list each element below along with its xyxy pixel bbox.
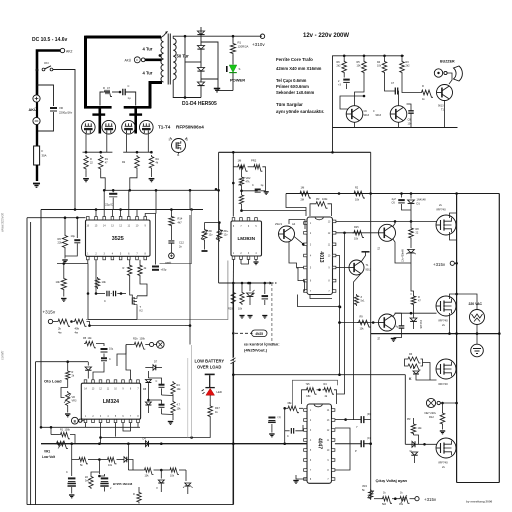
resistor VR1 pot on rail [55, 441, 68, 448]
wire thick center drop left pair [99, 107, 102, 133]
resistor R32 100k top left of LM324 [84, 341, 96, 348]
wire net to lm324 pins [143, 368, 148, 372]
svg-text:120R/2A: 120R/2A [238, 45, 249, 49]
terminal AKU supply [169, 253, 175, 259]
wire frame bottom [27, 504, 233, 506]
resistor R48 10k bottom pot [399, 496, 410, 503]
svg-text:Ferrite Core Trafo: Ferrite Core Trafo [276, 57, 313, 62]
wire option dashed border [271, 283, 273, 346]
wire source bar right pair [123, 151, 151, 153]
resistor R8 10k below 3525 [95, 277, 99, 289]
svg-text:+310v: +310v [252, 42, 265, 47]
wire 4047 rc loop [302, 390, 306, 404]
wire lamp bottom to earth [476, 325, 478, 345]
wire soft start loop [96, 293, 105, 295]
ground oto load [67, 407, 69, 413]
capacitor C18 [159, 404, 165, 406]
resistor R16 2k2 [401, 56, 403, 60]
wire 3525 pin13 up [111, 210, 113, 217]
zener ZD5 BY255 stage4 [414, 444, 416, 450]
svg-text:AKÜ: AKÜ [125, 59, 132, 63]
svg-text:10n: 10n [408, 123, 413, 126]
transistor M4 IRF740 stage4 [436, 438, 456, 458]
wire 4013 left pin loop [303, 281, 306, 291]
svg-text:R: R [103, 86, 105, 90]
svg-text:VR1: VR1 [44, 450, 50, 454]
resistor R40 row2 a [127, 444, 129, 470]
transistor T4 RFP50N06 [140, 120, 154, 134]
svg-text:42mm X40 mm X16mm: 42mm X40 mm X16mm [276, 66, 322, 71]
ground stage2 [394, 328, 402, 337]
svg-text:Primer 6X0.6mm: Primer 6X0.6mm [276, 84, 309, 89]
wire M4 source to corner [449, 455, 451, 483]
svg-text:C: C [156, 380, 158, 383]
svg-text:PR: PR [316, 198, 320, 201]
resistor R44 7k5 above 4047 [305, 388, 317, 395]
svg-text:Sekonder 1x0.6mm: Sekonder 1x0.6mm [276, 90, 314, 95]
wire 3525 pin2 down [95, 260, 97, 294]
svg-text:C6: C6 [392, 201, 396, 205]
resistor R13 2k2 [343, 56, 345, 60]
svg-text:Y: Y [356, 425, 358, 429]
resistor R31 oto load [66, 360, 69, 363]
capacitor C8 below 3525 [113, 291, 115, 297]
wire x233 to LM393 [232, 152, 234, 216]
resistor VR3 trimmer [67, 381, 69, 388]
wire x371 to pot [370, 444, 372, 489]
svg-text:5v1: 5v1 [361, 300, 366, 303]
resistor R26 stage1 gate [410, 221, 412, 226]
wire pwm bus y190 [105, 189, 219, 191]
diode D1 HER505 [200, 27, 202, 46]
svg-text:1N4148: 1N4148 [419, 320, 422, 329]
svg-text:2M: 2M [301, 199, 304, 202]
wire Q7 to 4013 [289, 220, 305, 230]
wire switch to control rail [53, 70, 75, 210]
resistor R39 10k row1 [106, 457, 116, 464]
svg-text:4 Tur: 4 Tur [143, 71, 153, 76]
svg-text:+315v: +315v [424, 497, 437, 502]
ground gate network right [151, 170, 153, 177]
wire buzzer top rail [333, 56, 405, 128]
wire stage2 base rail [340, 322, 379, 324]
wire hv bus corner to 4013 [286, 194, 306, 217]
zener diode ZD1 12v [204, 223, 206, 229]
svg-text:by emreltang 2006: by emreltang 2006 [466, 500, 493, 504]
svg-text:C: C [252, 184, 254, 187]
svg-text:4 Tur: 4 Tur [143, 47, 153, 52]
svg-text:R14: R14 [178, 217, 183, 221]
wire output mid rail y333 [371, 333, 500, 335]
wire bridge right link [201, 42, 218, 91]
wire lm324 top pin leads [93, 366, 104, 380]
transformer core [168, 34, 170, 85]
wire fuse to ground [36, 165, 38, 181]
svg-text:F: F [136, 58, 138, 62]
wire stage3 feed [404, 375, 406, 445]
resistor R1 120R 2W [232, 35, 235, 38]
capacitor C9 10u buzzer [343, 74, 345, 78]
resistor VR2 47k [241, 167, 243, 176]
op-amp U5 4047 box [307, 404, 332, 483]
capacitor C11 100n option [264, 283, 266, 294]
svg-text:PR2: PR2 [251, 159, 257, 163]
svg-text:(4N25/Vout.): (4N25/Vout.) [244, 348, 268, 353]
capacitor C6 10u at 3525 left [76, 218, 78, 238]
svg-text:com/tr: com/tr [1, 350, 5, 360]
svg-text:2k2: 2k2 [406, 65, 411, 68]
wire Q8 collector to gate rail [393, 221, 396, 227]
neon NE 220v [426, 398, 435, 407]
fuse F 30A [34, 146, 40, 165]
svg-text:R12: R12 [429, 415, 434, 419]
transistor Q9 stage2 driver [379, 314, 396, 331]
wire led feed T-bar [205, 373, 215, 375]
svg-text:C8k: C8k [306, 395, 311, 398]
resistor R42 right column [143, 458, 146, 460]
wire zener tops [205, 222, 220, 224]
snubber capacitor C4 1u [123, 89, 125, 96]
wire left frame vertical B [30, 222, 32, 505]
wire low bus y374.7 [233, 374, 405, 376]
svg-text:aynı yönde sarılacaktır.: aynı yönde sarılacaktır. [276, 109, 324, 114]
resistor R38 5k row1 [71, 444, 73, 452]
diode D5 option [249, 283, 251, 291]
resistor R10 below 3525 pin6 [139, 260, 141, 264]
resistor R17 1k to Q3 [402, 74, 420, 93]
svg-text:R2b: R2b [133, 338, 138, 341]
ground option block [239, 315, 244, 317]
resistor R33 chain to X [133, 342, 145, 349]
terminal AK2 [60, 48, 64, 52]
transistor Q6 9013 buzzer driver [437, 85, 453, 101]
wire y427 rail [41, 426, 140, 428]
svg-text:5v6: 5v6 [85, 480, 90, 483]
wire thick center drop right pair [134, 107, 137, 133]
wire far right rail x499 [498, 194, 500, 483]
resistor R14 10k [363, 56, 365, 60]
wire thick battery positive [37, 51, 60, 96]
svg-text:R: R [422, 85, 424, 88]
svg-text:22µ/C: 22µ/C [105, 203, 114, 207]
svg-text:Tüm Sargılar: Tüm Sargılar [276, 102, 303, 107]
battery AKU [33, 95, 40, 102]
wire Q10 emitter down [354, 274, 362, 420]
resistor R12 40k 4w [73, 319, 87, 326]
op-amp U2 LM393N box [232, 218, 235, 221]
resistor R18 1M [233, 166, 236, 168]
wire 3525 pin14 out B [103, 190, 105, 216]
wire oscillator loop [87, 264, 89, 320]
svg-text:www.320volt: www.320volt [1, 213, 5, 232]
svg-text:2200µ/16v: 2200µ/16v [59, 111, 73, 115]
svg-text:Oto Load: Oto Load [44, 379, 62, 384]
svg-text:+63p: +63p [161, 268, 167, 272]
wire faint sense [191, 345, 193, 438]
svg-text:4µ7: 4µ7 [392, 197, 397, 201]
wire 4013 pin13 gate line stage1 [336, 220, 437, 222]
svg-text:IRF740: IRF740 [437, 208, 447, 212]
capacitor C9 63p below 3525 pin9 [152, 266, 159, 268]
wire mid rail y152 [219, 151, 371, 153]
svg-text:PR: PR [407, 418, 411, 421]
svg-text:ON: ON [44, 61, 49, 65]
svg-text:C: C [66, 471, 68, 474]
svg-text:BY255 1N4148: BY255 1N4148 [113, 482, 133, 486]
resistor R gate T3 [135, 155, 140, 170]
svg-text:10µ: 10µ [109, 348, 114, 351]
svg-text:4k7: 4k7 [178, 221, 183, 225]
wire lamp top [457, 294, 477, 310]
wire Q10 base [336, 267, 349, 269]
zener ZD3 12v 400mW stage1 [410, 240, 412, 249]
capacitor C22 [291, 428, 293, 434]
svg-text:D1-D4 HER505: D1-D4 HER505 [182, 101, 217, 107]
svg-text:4013: 4013 [318, 251, 324, 262]
svg-text:S: S [239, 67, 241, 71]
diode D13 row1 [124, 457, 127, 463]
svg-text:(1): (1) [278, 416, 281, 419]
wire stage4 gate rail [405, 443, 436, 445]
wire M1 source [450, 232, 457, 240]
resistor R14 4k7 supply [170, 210, 172, 216]
svg-text:100k: 100k [65, 429, 71, 432]
wire 3525 pin12 up [120, 210, 122, 217]
svg-text:C: C [128, 84, 130, 88]
diode D9 stage4 [412, 441, 415, 447]
transistor M2 IRF740 stage2 [436, 296, 456, 316]
svg-text:Çıkış Voltaj ayarı: Çıkış Voltaj ayarı [376, 478, 408, 483]
diode D15 on rail [146, 441, 149, 447]
svg-text:IRF740: IRF740 [439, 382, 449, 386]
wire M4 drain [449, 403, 451, 441]
ground rectifier [214, 88, 220, 90]
capacitor C16 [101, 357, 107, 359]
svg-text:K2: K2 [140, 309, 144, 313]
transistor example RFP50N06 pinout [172, 139, 186, 153]
svg-text:C: C [104, 299, 106, 303]
wire M1 drain [450, 194, 457, 219]
svg-text:LM393N: LM393N [237, 236, 255, 241]
resistor R45 above 4047 [323, 388, 335, 395]
wire bridge left link [184, 36, 186, 97]
wire oto load box left [35, 362, 37, 505]
resistor R gate T4 [149, 155, 154, 170]
wire x370.7 long vertical [370, 152, 372, 193]
op-amp U1 3525 PWM controller box [87, 217, 90, 221]
resistor R21 option [241, 283, 243, 291]
resistor R30 neon [442, 403, 444, 412]
svg-text:R: R [123, 266, 125, 270]
svg-text:LOW BATTERY: LOW BATTERY [195, 359, 225, 364]
wire option bus y283 [219, 282, 268, 284]
wire zener links [91, 472, 99, 475]
wire 4047 right outputs [335, 419, 346, 421]
wire rail corner x41 down [40, 210, 42, 428]
svg-text:12v 400mW: 12v 400mW [402, 249, 405, 262]
capacitor C21 100n [268, 417, 275, 419]
svg-text:9013: 9013 [438, 105, 444, 108]
svg-text:4N25: 4N25 [255, 332, 263, 336]
wire x219 vertical [218, 152, 220, 283]
svg-text:22k: 22k [58, 241, 63, 245]
wire lm324 feedback top [117, 345, 126, 367]
svg-text:OVER LOAD: OVER LOAD [197, 365, 221, 370]
wire Q8 emitter down [393, 239, 412, 264]
resistor R9 below 3525 pin5 [129, 260, 131, 264]
op-amp U3 4013 box [307, 217, 333, 295]
ground comparator net [172, 415, 174, 421]
wire 68k to rail [284, 408, 286, 443]
svg-text:D1: D1 [417, 202, 421, 206]
svg-text:30A: 30A [42, 154, 47, 158]
svg-text:10k: 10k [56, 280, 61, 284]
wire right rail x456 [456, 194, 458, 483]
wire x233 long vertical [232, 283, 234, 505]
capacitor C19 10u bottom [71, 460, 73, 477]
node 4N25 badge [252, 330, 268, 337]
transistor M3 IRF740 stage3 [436, 359, 456, 379]
capacitor C24 out C [361, 440, 364, 447]
wire x344.5 vertical to 4047 rc [344, 233, 346, 389]
wire battery cells [36, 102, 38, 117]
ground LM393 [255, 259, 257, 261]
wire 3525 pin15 up [95, 210, 97, 217]
resistor R46 68k [287, 406, 299, 413]
capacitor C7 buzzer coupling [355, 74, 365, 106]
diode D7 1N4148 stage2 [410, 318, 417, 321]
diode D3 HER505 [197, 68, 204, 72]
svg-text:D: D [155, 487, 158, 489]
wire LM393 pins to nets [232, 259, 234, 283]
svg-text:VR4: VR4 [362, 485, 367, 488]
svg-text:C12: C12 [179, 241, 184, 245]
svg-text:5k6: 5k6 [382, 503, 387, 506]
svg-text:BUZZER: BUZZER [440, 60, 455, 64]
wire M2 drain to mid rail [450, 294, 457, 299]
svg-text:R47: R47 [215, 406, 220, 410]
wire 4047 rc outer loop [292, 380, 337, 408]
zener diode ZD2 [218, 223, 220, 229]
op-amp U4 LM324 box [84, 380, 87, 383]
diode D4 HER505 [197, 82, 204, 86]
resistor R6 22k at 3525 left [64, 218, 66, 234]
diode D10 above LM324 [87, 362, 89, 366]
diode D2 HER505 [197, 46, 204, 50]
wire comparator net links [144, 377, 148, 379]
zener ZD7 row2 [185, 470, 187, 481]
transistor Q10 9013 inverter [349, 260, 364, 275]
capacitor C20 10u bottom [101, 477, 109, 479]
svg-text:10µ: 10µ [71, 234, 76, 238]
svg-text:4.7: 4.7 [177, 404, 181, 407]
wire divider to comparator [87, 322, 90, 327]
wire thick drain bar T1 T2 [84, 106, 112, 109]
diode D6 1N4148 stage1 [410, 194, 412, 199]
wire 4047 left pins to rail [304, 443, 307, 445]
wire comparator to 4013 [242, 210, 307, 212]
transistor Q7 2SA driver [279, 226, 295, 242]
svg-text:10k: 10k [102, 280, 107, 284]
capacitor C15 10u [101, 348, 108, 350]
svg-text:Tel Çapı 0.6mm: Tel Çapı 0.6mm [276, 78, 307, 83]
svg-text:VR3: VR3 [72, 400, 77, 403]
wire buzzer cross couple [340, 96, 364, 109]
wire vcc rail y217.5 to left frame [27, 217, 86, 219]
wire 4047 bottom pins [296, 475, 307, 479]
node B connector [71, 417, 78, 424]
svg-text:C: C [109, 358, 111, 361]
wire thick bus top rail to transformer [86, 36, 162, 39]
node X circled [157, 341, 165, 349]
svg-text:220 VAC: 220 VAC [469, 302, 483, 306]
wire 3525 pin10 [136, 210, 138, 217]
svg-text:C: C [287, 435, 289, 438]
wire gray return loop y320 [86, 261, 228, 320]
terminal +310v [260, 34, 264, 38]
resistor R24 10k base stage1 [352, 231, 364, 238]
svg-text:+315v: +315v [433, 262, 446, 267]
wire led branch down [101, 418, 211, 438]
ground earth symbol [471, 344, 484, 357]
wire 3525 pin1 down left [57, 260, 88, 264]
svg-text:R20: R20 [228, 308, 233, 311]
resistor VR4 output adjust [369, 489, 373, 500]
svg-text:POWER: POWER [230, 78, 245, 83]
transistor T2 RFP50N06 [102, 120, 116, 134]
resistor R15 10k [384, 56, 386, 60]
capacitor C17 [159, 384, 165, 386]
junction snubber [119, 91, 122, 94]
wire secondary bottom [173, 80, 201, 98]
wire oto load box top [36, 361, 89, 363]
arrow transformer start [164, 31, 168, 36]
capacitor C13 stage2 [393, 313, 402, 317]
transistor T3 RFP50N06 [122, 120, 136, 134]
svg-text:DC 10.5 - 14.6v: DC 10.5 - 14.6v [32, 37, 68, 43]
svg-text:R25: R25 [354, 226, 359, 229]
junction divider [70, 320, 73, 323]
wire M3 drain source [449, 334, 451, 362]
resistor R47 1k bottom [381, 496, 392, 503]
wire lm324 bottom leads [85, 423, 87, 428]
svg-text:Low Volt: Low Volt [42, 455, 56, 459]
svg-text:VR: VR [59, 106, 63, 110]
capacitor C7 below 3525 [107, 291, 109, 297]
svg-text:LM324: LM324 [103, 399, 119, 405]
transistor Q small oscillator [131, 298, 133, 305]
svg-text:(D): (D) [367, 412, 371, 416]
wire thick drain bar T3 T4 [124, 106, 152, 109]
wire 4047 out loop right [335, 455, 347, 470]
transistor M1 IRF740 stage1 [436, 215, 456, 235]
zener ZD4 stage2 [352, 295, 357, 297]
wire supply drop gray [160, 210, 192, 264]
node V terminal [150, 342, 154, 346]
wire thick bus transformer bottom leg [150, 81, 162, 84]
resistor R29 stage3 pair [407, 357, 421, 363]
wire feedback loop y325 [90, 325, 186, 327]
svg-text:100k: 100k [322, 198, 328, 201]
svg-text:ısı kontrol İçin fan:: ısı kontrol İçin fan: [244, 342, 280, 347]
wire 3525 pin11 out A [128, 190, 130, 216]
resistor R20 10k option [232, 283, 234, 291]
resistor R35 [171, 381, 175, 396]
wire buzzer bottom rail [333, 127, 458, 129]
svg-text:2SA 9: 2SA 9 [275, 222, 282, 226]
resistor PR3 10k stage4 [405, 428, 408, 430]
svg-text:F: F [42, 149, 44, 153]
